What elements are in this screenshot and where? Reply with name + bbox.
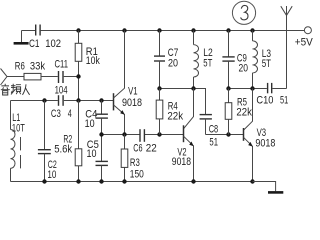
capacitor C2 value 10 (38, 101, 57, 182)
wire (ground to C1 left plate) (22, 30, 36, 32)
svg-text:22k: 22k (236, 106, 252, 118)
inductor L2 5T (194, 31, 213, 89)
wire (V1 emitter line / C4-C5 tap) (102, 134, 184, 136)
node rail-C9 (226, 28, 230, 32)
wire (R1 junction down to base line) (78, 77, 80, 101)
capacitor C4 value 10 (85, 101, 108, 135)
svg-text:+5V: +5V (295, 37, 314, 49)
svg-text:C11: C11 (55, 58, 69, 70)
svg-text:22k: 22k (167, 111, 183, 123)
input terminal (audio in) (1, 69, 8, 86)
svg-text:10T: 10T (12, 122, 25, 134)
svg-text:10k: 10k (86, 55, 100, 67)
svg-text:C10: C10 (256, 95, 273, 107)
resistor R3 150 (121, 135, 144, 182)
ground (top-left, C1 return) (14, 31, 29, 44)
svg-text:C3: C3 (51, 108, 61, 120)
node tank-L3-V3collector (250, 86, 254, 90)
node gnd-C2 (42, 179, 46, 183)
svg-text:V1: V1 (128, 86, 138, 98)
wire (C11 to base node) (64, 76, 79, 78)
resistor R1 10k (75, 31, 100, 101)
transistor V1 9018 (114, 31, 143, 135)
svg-text:5.6k: 5.6k (54, 143, 72, 155)
svg-text:10: 10 (47, 169, 56, 181)
svg-text:R6: R6 (15, 61, 25, 73)
node tank-C9R5 (226, 86, 230, 90)
node base-C4 (99, 98, 103, 102)
node emitter-R3 (122, 132, 126, 136)
resistor R6 33k (15, 61, 46, 80)
node rail-L3 (250, 28, 254, 32)
+5V terminal (295, 27, 314, 49)
wire (bottom ground rail) (11, 181, 253, 183)
svg-text:9018: 9018 (122, 97, 142, 109)
wire (input to R6) (7, 76, 24, 78)
capacitor C8 value 51 (200, 115, 219, 149)
capacitor C9 value 20 (222, 31, 248, 89)
svg-text:22: 22 (146, 143, 157, 155)
capacitor C11 value 104 (55, 58, 69, 96)
resistor R2 5.6k (54, 101, 82, 182)
label 音频入 (audio input, drawn glyphs) (1, 84, 30, 95)
capacitor C10 value 51 (256, 83, 288, 107)
node gnd-R2 (76, 179, 80, 183)
svg-text:5T: 5T (203, 57, 212, 69)
capacitor C3 value 4 (51, 95, 72, 120)
node emitter-C4C5 (99, 132, 103, 136)
node rail-L2 (191, 28, 195, 32)
node tank-C7R4 (157, 86, 161, 90)
inductor L1 10T (11, 101, 26, 182)
svg-text:51: 51 (280, 95, 288, 107)
svg-text:104: 104 (55, 85, 68, 97)
node rail-V1 collector (122, 28, 126, 32)
resistor R5 22k (225, 89, 252, 135)
svg-text:150: 150 (130, 168, 144, 180)
transistor V2 9018 (172, 89, 194, 182)
wire (+5V power rail) (40, 30, 304, 32)
capacitor C1 value 102 (29, 25, 61, 50)
svg-text:102: 102 (45, 38, 61, 50)
node R4-V2 base (157, 132, 161, 136)
node gnd-V2 emitter (191, 179, 195, 183)
ground (bottom-right) (253, 182, 284, 193)
node R5-V3 base (226, 132, 230, 136)
svg-text:33k: 33k (30, 61, 46, 73)
capacitor C6 value 22 (133, 129, 157, 154)
wire (R6 to C11) (41, 76, 58, 78)
svg-text:10: 10 (85, 118, 95, 130)
node figure number 3 (232, 1, 255, 24)
resistor R4 22k (156, 89, 183, 135)
svg-text:5T: 5T (262, 58, 271, 70)
inductor L3 5T (253, 31, 272, 89)
svg-text:C8: C8 (209, 124, 219, 136)
svg-text:9018: 9018 (255, 137, 275, 149)
capacitor C7 value 20 (154, 31, 178, 89)
node gnd-V3 emitter (250, 179, 254, 183)
svg-text:9018: 9018 (172, 156, 191, 168)
svg-text:20: 20 (239, 63, 249, 75)
svg-text:4: 4 (68, 108, 72, 120)
node base-C2 (42, 98, 46, 102)
node C11-R1 junction (76, 74, 80, 78)
svg-text:51: 51 (209, 136, 218, 148)
svg-text:C1: C1 (29, 38, 40, 50)
wire (C8 to V3 base) (206, 134, 244, 136)
wire (V3 collector tank bus) (229, 88, 267, 90)
transistor V3 9018 (244, 89, 276, 182)
svg-text:20: 20 (168, 57, 178, 69)
node rail-R1 (76, 28, 80, 32)
node base-R1R2 (76, 98, 80, 102)
node rail-C7 (157, 28, 161, 32)
svg-text:R3: R3 (130, 157, 140, 169)
node gnd-C5 (99, 179, 103, 183)
svg-text:10: 10 (87, 148, 97, 160)
wire (V2 collector tank bus) (160, 89, 206, 115)
capacitor C5 value 10 (87, 135, 108, 182)
node tank-L2-V2collector (191, 86, 195, 90)
svg-text:C6: C6 (133, 143, 142, 155)
wire (V1 base line) (11, 100, 114, 102)
antenna (281, 6, 292, 89)
node gnd-R3 (122, 179, 126, 183)
